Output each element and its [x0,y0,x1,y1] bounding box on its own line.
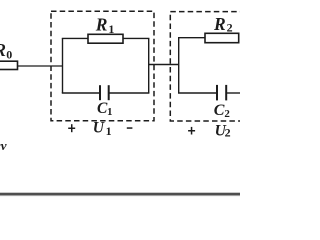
wire loop1 top left segment [62,37,89,39]
wire between network 1 and network 2 [149,64,179,66]
wire loop1 bottom right segment [109,92,150,94]
svg-text:U: U [93,120,105,137]
wire loop2 left vertical [178,38,180,93]
svg-text:1: 1 [107,106,113,118]
label plus polarity U2 [191,127,193,135]
svg-text:2: 2 [227,20,233,34]
svg-text:0: 0 [6,48,12,62]
svg-text:R: R [0,40,6,60]
dashed box 1 (RC network 1) [51,11,154,121]
svg-text:2: 2 [224,108,230,120]
capacitor C1 [99,85,101,100]
svg-text:R: R [95,15,108,35]
dashed box 2 (RC network 2) [170,12,252,121]
svg-text:C: C [214,102,225,119]
svg-text:1: 1 [106,124,112,138]
svg-text:2: 2 [225,125,231,139]
svg-text:R: R [213,14,226,34]
wire loop1 left vertical [62,38,64,93]
capacitor C2 [216,85,218,101]
wire loop2 top segment [178,37,206,39]
svg-text:1: 1 [108,22,114,36]
wire loop2 bottom right segment [226,92,240,94]
wire loop1 top right segment [123,37,149,39]
label plus polarity U1 [71,124,73,132]
wire loop1 right vertical [148,38,150,93]
wire from R0 to network 1 [18,65,63,67]
svg-text:cv: cv [0,138,7,153]
resistor R2 [205,33,239,42]
resistor R1 [88,34,123,43]
resistor R0 [0,61,18,69]
wire loop2 bottom left segment [178,92,217,94]
wire loop1 bottom left segment [62,92,100,94]
label minus polarity U1 [127,127,133,129]
